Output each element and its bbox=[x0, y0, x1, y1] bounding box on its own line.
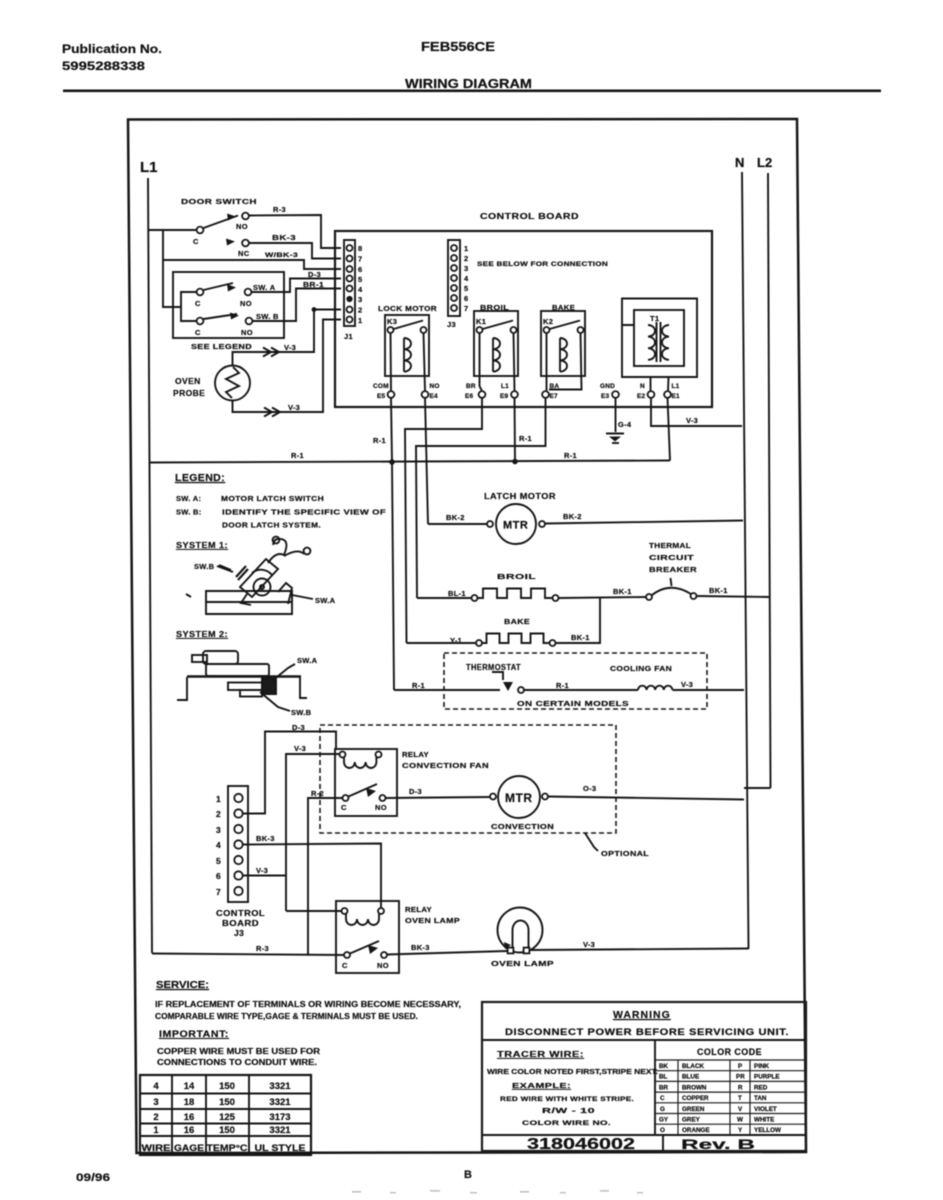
svg-text:FEB556CE: FEB556CE bbox=[421, 39, 495, 54]
J1 pin 3 bbox=[346, 296, 352, 302]
optional leader line bbox=[585, 833, 598, 851]
svg-text:16: 16 bbox=[184, 1112, 195, 1123]
SW.A arrowhead bbox=[227, 284, 236, 292]
J3 bottom pin 4 bbox=[234, 840, 242, 848]
wire thermostat to cooling fan bbox=[524, 689, 638, 691]
svg-text:J1: J1 bbox=[344, 332, 353, 341]
svg-text:BK-1: BK-1 bbox=[571, 633, 590, 642]
warning column divider bbox=[654, 1040, 656, 1135]
wire inner feed joining SW.A and SW.B commons bbox=[181, 292, 196, 321]
wire O-3 from MTR to N rail bbox=[548, 797, 744, 800]
svg-text:C: C bbox=[341, 803, 347, 812]
svg-text:N: N bbox=[735, 155, 744, 170]
T1 core bbox=[656, 322, 658, 362]
latch motor right terminal bbox=[539, 521, 545, 527]
door switch NC arrowhead bbox=[226, 239, 235, 246]
svg-text:E9: E9 bbox=[500, 393, 509, 400]
SW A/B switch box bbox=[173, 272, 284, 338]
wire L2 rail bbox=[768, 173, 771, 788]
svg-text:4: 4 bbox=[464, 274, 469, 283]
J3 bottom pin 1 bbox=[234, 794, 242, 802]
svg-text:BROWN: BROWN bbox=[682, 1084, 707, 1091]
svg-text:YELLOW: YELLOW bbox=[754, 1127, 781, 1134]
convection motor MTR bbox=[498, 776, 540, 818]
svg-text:W/BK-3: W/BK-3 bbox=[265, 252, 298, 259]
thermostat symbol bbox=[492, 672, 524, 693]
wire bake right up to broil wire bbox=[556, 598, 601, 644]
svg-text:CONVECTION FAN: CONVECTION FAN bbox=[402, 761, 489, 770]
svg-text:J3: J3 bbox=[447, 320, 456, 329]
svg-text:E4: E4 bbox=[430, 393, 439, 400]
wire E3 to ground bbox=[615, 398, 617, 432]
conv relay arrowhead bbox=[366, 788, 376, 797]
svg-text:V-3: V-3 bbox=[583, 940, 595, 949]
svg-text:OPTIONAL: OPTIONAL bbox=[601, 849, 649, 858]
wire R-2 from conv relay C down to lamp feed bbox=[308, 798, 343, 954]
svg-text:CONVECTION: CONVECTION bbox=[491, 822, 554, 831]
J3 top pin 6 bbox=[451, 295, 457, 301]
svg-text:IDENTIFY THE SPECIFIC VIEW OF: IDENTIFY THE SPECIFIC VIEW OF bbox=[222, 508, 386, 517]
conv relay switch NO terminal bbox=[380, 795, 386, 801]
oven lamp right terminal bbox=[524, 948, 530, 954]
svg-text:D-3: D-3 bbox=[409, 787, 422, 796]
thermal circuit breaker bbox=[646, 578, 697, 600]
svg-text:THERMOSTAT: THERMOSTAT bbox=[466, 662, 521, 672]
svg-text:T: T bbox=[738, 1095, 742, 1102]
svg-text:D-3: D-3 bbox=[308, 270, 321, 279]
ground symbol bbox=[606, 434, 624, 444]
svg-text:2: 2 bbox=[358, 306, 362, 315]
lamp relay switch NO terminal bbox=[381, 952, 387, 958]
SW.B terminal NO bbox=[246, 318, 253, 325]
wire D-3 conv relay NO to MTR bbox=[386, 797, 491, 798]
svg-text:SW.A: SW.A bbox=[297, 656, 318, 665]
svg-text:L1: L1 bbox=[140, 159, 158, 176]
J3 top pin 1 bbox=[451, 245, 457, 251]
part number divider bbox=[662, 1135, 664, 1151]
SW.A terminal NO bbox=[245, 289, 252, 296]
svg-text:L2: L2 bbox=[757, 155, 772, 170]
svg-text:V-3: V-3 bbox=[686, 416, 698, 425]
wire breaker to L2 rail bbox=[697, 596, 770, 597]
junction at pin2 wire bbox=[312, 307, 317, 312]
wire K2 right bend to E7 bbox=[549, 333, 582, 390]
oven probe element zigzag bbox=[226, 367, 239, 398]
svg-text:CONTROL: CONTROL bbox=[216, 908, 265, 918]
svg-text:COPPER WIRE MUST BE USED FOR: COPPER WIRE MUST BE USED FOR bbox=[157, 1046, 321, 1056]
svg-text:E1: E1 bbox=[672, 393, 681, 400]
header: publication number bbox=[62, 42, 162, 73]
J1 pin 4 bbox=[347, 286, 353, 292]
svg-text:WIRE COLOR NOTED FIRST,STRIPE: WIRE COLOR NOTED FIRST,STRIPE NEXT. bbox=[487, 1067, 658, 1076]
wire BK-2 latch motor to N rail bbox=[545, 521, 743, 524]
warning divider bbox=[482, 1039, 806, 1041]
lamp relay switch C terminal bbox=[344, 952, 350, 958]
svg-text:PURPLE: PURPLE bbox=[754, 1074, 780, 1081]
svg-text:IF REPLACEMENT OF TERMINALS OR: IF REPLACEMENT OF TERMINALS OR WIRING BE… bbox=[155, 999, 461, 1009]
dashed box on certain models bbox=[444, 653, 707, 709]
K3 coil bbox=[404, 338, 411, 372]
K2 arm bbox=[550, 321, 581, 330]
svg-text:BOARD: BOARD bbox=[222, 918, 259, 928]
lamp relay coil bbox=[346, 914, 379, 925]
svg-text:E6: E6 bbox=[465, 393, 474, 400]
oven lamp left terminal bbox=[508, 948, 514, 954]
svg-text:R/W - 10: R/W - 10 bbox=[542, 1106, 595, 1115]
svg-text:COLOR WIRE NO.: COLOR WIRE NO. bbox=[522, 1120, 611, 1127]
svg-text:2: 2 bbox=[464, 254, 468, 263]
svg-text:PR: PR bbox=[736, 1074, 745, 1081]
wire T1 to E2 bbox=[650, 377, 652, 391]
chevrons on upper V-3 wire bbox=[263, 348, 279, 357]
svg-text:COM: COM bbox=[373, 383, 389, 390]
wire to bake left bbox=[407, 642, 476, 644]
terminal E9 bbox=[511, 391, 518, 398]
svg-text:G-4: G-4 bbox=[618, 420, 632, 429]
color code rows bbox=[659, 1063, 781, 1134]
svg-text:NO: NO bbox=[240, 299, 252, 308]
svg-text:OVEN: OVEN bbox=[175, 376, 201, 386]
conv relay coil bbox=[344, 757, 376, 768]
svg-text:UL STYLE: UL STYLE bbox=[255, 1143, 306, 1154]
lamp relay arrowhead bbox=[368, 945, 378, 954]
J3 top pin 3 bbox=[451, 265, 457, 271]
connector J3 bottom body bbox=[228, 786, 248, 902]
svg-text:K3: K3 bbox=[387, 317, 397, 326]
connector J1 body bbox=[344, 240, 355, 326]
scan specks bottom bbox=[352, 1190, 643, 1194]
J1 pin 6 bbox=[347, 266, 353, 272]
svg-text:BREAKER: BREAKER bbox=[649, 565, 697, 574]
wire BK-3 from NC to J1 pin 7 bbox=[249, 243, 341, 259]
control board outline bbox=[335, 231, 712, 407]
wire V-3 to oven lamp relay coil bbox=[286, 910, 341, 912]
wire BK-3 from J3 pin 4 to oven lamp relay coil bbox=[243, 844, 382, 909]
svg-text:SW.B: SW.B bbox=[194, 562, 215, 571]
svg-text:P: P bbox=[738, 1063, 742, 1070]
svg-text:WHITE: WHITE bbox=[754, 1117, 774, 1124]
svg-text:C: C bbox=[660, 1095, 665, 1102]
svg-text:E2: E2 bbox=[637, 393, 646, 400]
svg-text:1: 1 bbox=[216, 794, 221, 804]
wire R-3 from NO to J1 pin 8 bbox=[249, 215, 341, 248]
K2 left terminal bbox=[544, 327, 550, 333]
svg-text:BK-3: BK-3 bbox=[256, 834, 275, 843]
svg-text:V-3: V-3 bbox=[294, 744, 306, 753]
svg-text:3: 3 bbox=[153, 1097, 158, 1108]
svg-text:BLACK: BLACK bbox=[682, 1063, 704, 1070]
J3 top pin 4 bbox=[451, 275, 457, 281]
wire BR-1 from SW.B NO to J1 pin 4 bbox=[253, 289, 342, 322]
svg-text:150: 150 bbox=[219, 1081, 235, 1092]
wire N rail bbox=[742, 172, 749, 949]
terminal E7 bbox=[542, 391, 549, 398]
terminal E4 bbox=[422, 391, 429, 398]
svg-text:3: 3 bbox=[464, 264, 468, 273]
svg-text:SEE BELOW FOR CONNECTION: SEE BELOW FOR CONNECTION bbox=[477, 261, 608, 268]
wire E1 down to R-1 bus bbox=[668, 398, 671, 461]
K3 arm bbox=[394, 321, 424, 330]
wire R-1 bus from L1 rail to E1 bbox=[150, 461, 670, 463]
svg-text:LOCK MOTOR: LOCK MOTOR bbox=[378, 304, 437, 313]
svg-text:NO: NO bbox=[377, 961, 389, 970]
K1 left terminal bbox=[477, 327, 483, 333]
svg-text:E3: E3 bbox=[601, 393, 610, 400]
lamp relay coil right terminal bbox=[378, 908, 384, 914]
svg-text:BK-3: BK-3 bbox=[272, 233, 296, 242]
latch motor left terminal bbox=[487, 521, 493, 527]
svg-text:BA: BA bbox=[550, 383, 560, 390]
bake element coil bbox=[483, 634, 550, 644]
svg-text:LEGEND:: LEGEND: bbox=[175, 472, 225, 484]
wire V-3 oven lamp to N rail bbox=[530, 949, 749, 951]
convection motor right terminal bbox=[542, 794, 548, 800]
system 1 SW.A leader bbox=[292, 595, 313, 599]
svg-text:O-3: O-3 bbox=[583, 784, 596, 793]
svg-text:MTR: MTR bbox=[503, 520, 528, 532]
K1 arm bbox=[483, 321, 514, 330]
svg-text:J3: J3 bbox=[234, 928, 244, 938]
svg-text:4: 4 bbox=[216, 840, 221, 850]
wire T1 to E1 bbox=[667, 377, 670, 391]
svg-text:DOOR SWITCH: DOOR SWITCH bbox=[181, 197, 257, 206]
wire R-1 into thermostat bbox=[394, 689, 500, 691]
main border frame bbox=[128, 119, 806, 1153]
svg-text:Publication No.: Publication No. bbox=[62, 42, 162, 56]
convection motor left terminal bbox=[490, 794, 496, 800]
svg-text:R-1: R-1 bbox=[519, 434, 532, 443]
J3 top pin 2 bbox=[451, 255, 457, 261]
svg-text:T1: T1 bbox=[650, 314, 659, 323]
svg-text:C: C bbox=[193, 237, 199, 246]
svg-text:V-3: V-3 bbox=[284, 343, 296, 352]
svg-text:E7: E7 bbox=[550, 393, 559, 400]
transformer T1 inner box bbox=[634, 310, 684, 366]
svg-text:BR: BR bbox=[659, 1084, 669, 1091]
K3 right terminal bbox=[421, 327, 427, 333]
wire K1 right to E9 bbox=[514, 333, 515, 391]
svg-text:R-3: R-3 bbox=[273, 205, 286, 214]
K2 right terminal bbox=[578, 327, 584, 333]
wire E9 down to R-1 bbox=[514, 398, 517, 462]
wire BK-3 lamp relay NO to oven lamp bbox=[387, 951, 507, 955]
svg-text:NO: NO bbox=[241, 328, 253, 337]
svg-text:R-1: R-1 bbox=[556, 681, 569, 690]
svg-text:WIRE: WIRE bbox=[142, 1143, 171, 1154]
svg-text:SYSTEM 1:: SYSTEM 1: bbox=[176, 540, 228, 550]
svg-text:318046002: 318046002 bbox=[527, 1136, 635, 1153]
J1 pin 2 bbox=[347, 307, 353, 313]
svg-text:V: V bbox=[738, 1106, 743, 1113]
door switch arm arrowhead bbox=[227, 214, 236, 221]
svg-text:150: 150 bbox=[219, 1125, 235, 1136]
svg-text:150: 150 bbox=[219, 1097, 235, 1108]
oven lamp terminal arrowhead bbox=[504, 942, 511, 949]
svg-text:PROBE: PROBE bbox=[173, 388, 205, 398]
svg-text:N: N bbox=[640, 383, 645, 390]
terminal E1 bbox=[664, 391, 671, 398]
J1 pin 7 bbox=[347, 256, 353, 262]
svg-text:4: 4 bbox=[358, 285, 363, 294]
svg-text:LATCH MOTOR: LATCH MOTOR bbox=[484, 491, 556, 501]
SW.A arm bbox=[204, 283, 234, 290]
svg-text:V-3: V-3 bbox=[256, 866, 268, 875]
wire L1 to door switch C bbox=[148, 229, 196, 231]
door switch terminal NO bbox=[242, 213, 249, 220]
svg-text:CONTROL BOARD: CONTROL BOARD bbox=[480, 211, 579, 221]
wire to broil left bbox=[417, 597, 471, 599]
svg-text:GND: GND bbox=[600, 383, 615, 390]
svg-text:DISCONNECT POWER BEFORE SERVIC: DISCONNECT POWER BEFORE SERVICING UNIT. bbox=[505, 1027, 789, 1038]
K3 left terminal bbox=[388, 327, 394, 333]
svg-text:CIRCUIT: CIRCUIT bbox=[649, 553, 694, 562]
svg-text:3321: 3321 bbox=[269, 1125, 291, 1136]
svg-text:THERMAL: THERMAL bbox=[649, 541, 691, 550]
svg-text:SW. A:: SW. A: bbox=[176, 494, 201, 503]
svg-text:BR-1: BR-1 bbox=[303, 280, 324, 289]
svg-text:RELAY: RELAY bbox=[402, 750, 429, 759]
terminal E3 bbox=[612, 391, 619, 398]
conv relay switch C terminal bbox=[343, 795, 349, 801]
wire E5 down to R-1 and on to thermostat bbox=[391, 398, 394, 690]
wire E7 step down to broil element bbox=[416, 398, 546, 598]
wire broil to thermal breaker bbox=[559, 597, 646, 598]
wire E4 down to latch motor bbox=[425, 398, 428, 524]
svg-text:COMPARABLE WIRE TYPE,GAGE & TE: COMPARABLE WIRE TYPE,GAGE & TERMINALS MU… bbox=[155, 1011, 418, 1021]
svg-text:TAN: TAN bbox=[754, 1095, 767, 1102]
K1 coil bbox=[493, 338, 500, 372]
svg-text:2: 2 bbox=[216, 809, 221, 819]
svg-text:RED: RED bbox=[754, 1084, 768, 1091]
header rule bbox=[63, 90, 881, 93]
svg-text:EXAMPLE:: EXAMPLE: bbox=[512, 1081, 571, 1090]
system 2 sketch: door latch assembly bbox=[177, 651, 307, 700]
svg-text:BR: BR bbox=[466, 383, 476, 390]
svg-text:RED WIRE WITH WHITE STRIPE.: RED WIRE WITH WHITE STRIPE. bbox=[500, 1096, 634, 1103]
svg-text:L1: L1 bbox=[501, 383, 509, 390]
svg-text:3: 3 bbox=[358, 295, 362, 304]
svg-text:OVEN LAMP: OVEN LAMP bbox=[405, 916, 460, 925]
svg-text:DOOR LATCH SYSTEM.: DOOR LATCH SYSTEM. bbox=[222, 521, 321, 530]
svg-text:BK-1: BK-1 bbox=[613, 587, 632, 596]
J1 pin 5 bbox=[347, 276, 353, 282]
svg-text:GREEN: GREEN bbox=[682, 1106, 705, 1113]
svg-text:CONNECTIONS TO CONDUIT WIRE.: CONNECTIONS TO CONDUIT WIRE. bbox=[157, 1057, 317, 1067]
warning bottom divider bbox=[482, 1134, 806, 1136]
conv relay arm bbox=[349, 784, 378, 797]
svg-text:G: G bbox=[660, 1106, 665, 1113]
wire V-3 from J3 pin 6 to relay coils bbox=[243, 875, 287, 877]
svg-text:18: 18 bbox=[184, 1097, 195, 1108]
svg-text:NO: NO bbox=[375, 803, 387, 812]
SW.A terminal C bbox=[197, 289, 204, 296]
wire E6 step down to bake element bbox=[405, 398, 482, 643]
cooling fan coil bbox=[638, 686, 672, 690]
svg-text:RELAY: RELAY bbox=[405, 905, 432, 914]
wire D-3 from SW.A NO to J1 pin 5 bbox=[252, 279, 342, 293]
svg-text:GAGE: GAGE bbox=[174, 1143, 204, 1154]
svg-text:R-1: R-1 bbox=[373, 436, 386, 445]
svg-text:BL: BL bbox=[659, 1074, 668, 1081]
svg-text:SYSTEM 2:: SYSTEM 2: bbox=[176, 629, 228, 639]
wire V-3 riser feeding both relay coils bbox=[286, 754, 339, 911]
T1 secondary winding bbox=[662, 325, 669, 360]
svg-text:SW.A: SW.A bbox=[315, 596, 336, 605]
svg-text:5: 5 bbox=[216, 856, 221, 866]
SW.B arm bbox=[204, 314, 238, 319]
svg-text:V-3: V-3 bbox=[288, 403, 300, 412]
wire probe bottom V-3 to J1 pin 1 bbox=[233, 320, 342, 413]
svg-text:6: 6 bbox=[216, 871, 221, 881]
svg-text:1: 1 bbox=[464, 244, 468, 253]
svg-text:7: 7 bbox=[358, 255, 362, 264]
relay convection fan body bbox=[335, 749, 397, 816]
svg-text:C: C bbox=[195, 299, 201, 308]
svg-text:SW. B: SW. B bbox=[256, 312, 279, 321]
svg-text:O: O bbox=[660, 1127, 665, 1134]
svg-text:5: 5 bbox=[358, 275, 362, 284]
svg-text:ORANGE: ORANGE bbox=[682, 1127, 710, 1134]
svg-text:6: 6 bbox=[464, 294, 468, 303]
svg-text:R-1: R-1 bbox=[412, 681, 425, 690]
relay K1 body bbox=[474, 311, 518, 376]
svg-text:GREY: GREY bbox=[682, 1117, 701, 1124]
broil right terminal bbox=[553, 595, 559, 601]
dashed optional box bbox=[320, 725, 616, 833]
svg-text:VIOLET: VIOLET bbox=[754, 1106, 777, 1113]
svg-text:R-2: R-2 bbox=[311, 789, 324, 798]
relay K3 body bbox=[385, 315, 429, 376]
svg-text:D-3: D-3 bbox=[292, 723, 305, 732]
svg-text:16: 16 bbox=[184, 1125, 195, 1136]
svg-text:PINK: PINK bbox=[754, 1063, 769, 1070]
wire K3 right to E4 bbox=[424, 333, 426, 391]
svg-text:W: W bbox=[737, 1117, 743, 1124]
wire cooling fan to N rail bbox=[673, 689, 745, 691]
svg-text:COOLING FAN: COOLING FAN bbox=[610, 664, 672, 673]
svg-text:BK-2: BK-2 bbox=[446, 513, 465, 522]
svg-text:BROIL: BROIL bbox=[497, 572, 536, 581]
lamp relay coil left terminal bbox=[342, 908, 348, 914]
svg-text:V-3: V-3 bbox=[681, 680, 693, 689]
svg-text:BK-2: BK-2 bbox=[563, 512, 582, 521]
J3 bottom pin 3 bbox=[234, 825, 242, 833]
svg-text:3173: 3173 bbox=[269, 1112, 290, 1123]
T1 primary winding bbox=[648, 325, 655, 360]
svg-text:SERVICE:: SERVICE: bbox=[156, 979, 209, 991]
svg-text:2: 2 bbox=[153, 1112, 158, 1123]
J3 bottom pin 5 bbox=[234, 856, 242, 864]
color code table grid bbox=[655, 1060, 806, 1135]
door switch terminal NC bbox=[242, 240, 249, 247]
svg-text:5: 5 bbox=[464, 284, 468, 293]
svg-text:MTR: MTR bbox=[505, 791, 533, 805]
svg-text:R-1: R-1 bbox=[564, 451, 577, 460]
wire V-3 from E2 to N rail bbox=[651, 398, 742, 426]
system 1 sketch: door latch assembly bbox=[186, 537, 310, 614]
svg-text:3: 3 bbox=[216, 825, 221, 835]
door switch terminal C bbox=[197, 227, 204, 234]
J1 pin 8 bbox=[347, 245, 353, 251]
svg-text:TRACER WIRE:: TRACER WIRE: bbox=[497, 1049, 584, 1059]
conv relay coil right terminal bbox=[376, 752, 382, 758]
svg-text:R: R bbox=[738, 1084, 743, 1091]
svg-text:C: C bbox=[195, 328, 201, 337]
svg-text:1: 1 bbox=[153, 1125, 159, 1136]
svg-text:BLUE: BLUE bbox=[682, 1074, 699, 1081]
latch motor body MTR bbox=[496, 504, 536, 544]
svg-text:BK-3: BK-3 bbox=[411, 943, 430, 952]
